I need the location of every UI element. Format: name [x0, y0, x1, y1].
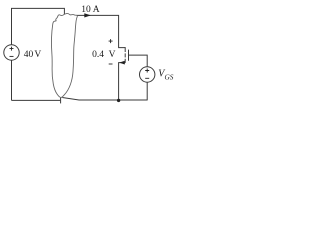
junction dot on bottom rail [117, 99, 120, 102]
plus sign inside 40 V source [10, 47, 14, 51]
wire: bottom rail right segment (slight hand-drawn slant from blob) [62, 98, 147, 101]
node: blob bottom stub crossing bottom rail [60, 98, 62, 104]
minus sign of 0.4 V [109, 63, 113, 65]
wire: bottom rail left segment [12, 99, 61, 101]
transistor Q1 gate bar [128, 50, 130, 61]
minus sign inside VGS source [145, 77, 149, 79]
wire: left rail top + top rail left + stub down to blob [12, 8, 65, 44]
svg-text:0.4V: 0.4V [92, 50, 116, 60]
wire: top rail right with 10 A arrow, down to drain lead [77, 15, 125, 47]
transistor Q1 source lead down to bottom rail [119, 63, 126, 101]
hand-drawn blob annotation around middle branch [51, 13, 77, 97]
transistor Q1 gate lead to VGS source [129, 55, 148, 67]
voltage source VGS circle [140, 67, 155, 82]
arrowhead 10 A current direction [84, 13, 91, 17]
wire: left rail bottom [11, 60, 13, 100]
svg-text:10A: 10A [81, 5, 100, 15]
voltage source V1 40 V circle [4, 45, 19, 60]
minus sign inside 40 V source [10, 55, 14, 57]
transistor Q1 source arrow (points left) [119, 61, 125, 65]
svg-text:40V: 40V [24, 50, 42, 60]
transistor Q1 channel (three dashes) [124, 47, 126, 63]
plus sign of 0.4 V [109, 39, 113, 43]
plus sign inside VGS source [145, 69, 149, 73]
wire: VGS source bottom to bottom rail [146, 82, 148, 100]
svg-text:GS: GS [165, 73, 174, 82]
